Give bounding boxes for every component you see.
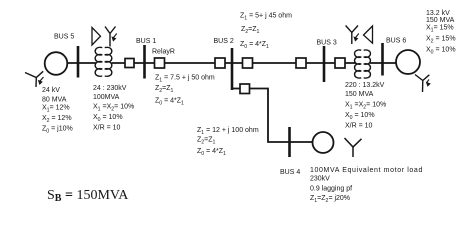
svg-text:RelayR: RelayR (152, 49, 175, 56)
svg-text:BUS 3: BUS 3 (317, 40, 337, 47)
svg-text:150 MVA: 150 MVA (345, 91, 374, 98)
svg-text:150 MVA: 150 MVA (426, 17, 455, 24)
svg-text:80 MVA: 80 MVA (42, 97, 67, 104)
svg-text:BUS 6: BUS 6 (386, 38, 406, 45)
svg-text:BUS 4: BUS 4 (280, 169, 300, 176)
svg-text:BUS 2: BUS 2 (214, 38, 234, 45)
svg-text:BUS 5: BUS 5 (54, 34, 74, 41)
svg-text:100MVA: 100MVA (93, 94, 120, 101)
svg-text:220 : 13.2kV: 220 : 13.2kV (345, 82, 385, 89)
svg-text:0.9 lagging pf: 0.9 lagging pf (310, 186, 352, 193)
svg-text:24 : 230kV: 24 : 230kV (93, 85, 127, 92)
svg-text:X/R = 10: X/R = 10 (93, 125, 121, 132)
svg-text:X/R = 10: X/R = 10 (345, 123, 373, 130)
svg-text:13.2 kV: 13.2 kV (426, 10, 450, 17)
svg-text:230kV: 230kV (310, 176, 330, 183)
svg-text:BUS 1: BUS 1 (136, 38, 156, 45)
svg-text:24 kV: 24 kV (42, 87, 60, 94)
svg-text:100MVA Equivalent motor load: 100MVA Equivalent motor load (310, 167, 423, 174)
